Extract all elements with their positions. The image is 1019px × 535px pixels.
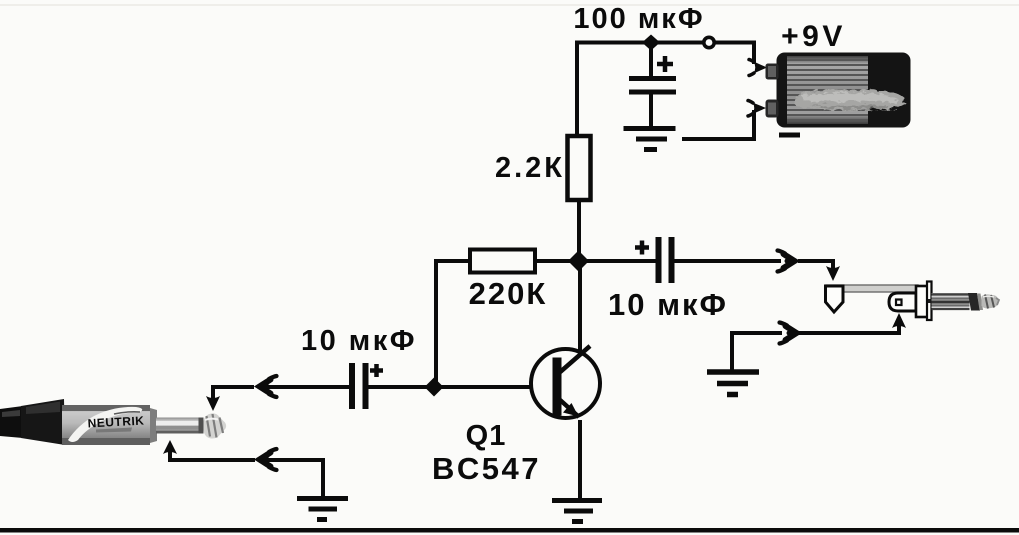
tip groove [199,418,204,434]
wire: output cap right lead [675,259,779,263]
boot [0,406,23,438]
input jack J1 photo (1/4 inch plug) [0,399,226,445]
sleeve lug hole [896,300,902,306]
arrow: output ground right arrow [780,323,798,344]
arrow: input sleeve (up) [163,440,177,454]
arrow: input signal left arrow [259,376,277,397]
Q1 emitter stroke [559,399,579,417]
wire: collector node to transistor collector [578,261,582,355]
wire: +9V rail left segment [577,41,702,45]
node B: collector node [568,251,589,272]
body strip [826,285,918,292]
top faint border line [0,4,1019,6]
bushing collar [916,286,928,317]
arrow: battery plus arrowhead [754,62,768,74]
shaft [156,418,201,434]
svg-text:+9V: +9V [781,20,846,53]
wire: +9V rail right of test point [716,43,754,63]
svg-text:220К: 220К [469,276,548,311]
wire: input ground wire [263,460,323,497]
bottom border line [0,528,1019,533]
ground: input jack [297,499,348,520]
arrow: into output tip (down) [826,266,840,281]
wire: filter cap to ground [649,93,653,127]
resistor R1 2.2K [568,136,591,200]
svg-text:Q1: Q1 [466,420,507,452]
svg-text:10 мкФ: 10 мкФ [301,325,417,357]
cone [21,399,65,445]
wire: base node to base [434,385,553,389]
plug shaft threaded [932,293,970,310]
wire: output ground to jack sleeve [797,328,899,333]
battery terminal - [766,100,779,118]
C3 plus sign [635,241,649,255]
swoosh [68,407,142,442]
node A: rail junction [642,35,660,51]
wire: input cap left lead [263,385,349,389]
svg-text:2.2К: 2.2К [495,152,565,184]
Q1 base bar [553,358,562,416]
arrow: output signal right arrow [778,251,796,272]
arrow: input ground left arrow [259,449,277,470]
wire: input cap to base node [368,385,434,389]
wire: input jack tip stub [213,387,252,398]
svg-text:10 мкФ: 10 мкФ [608,287,728,322]
battery BT1 9V photo [766,53,911,138]
C2 plus sign [370,364,383,377]
ground: output jack [707,372,759,395]
arrow: output sleeve (up) [892,313,906,328]
bushing flange [927,282,932,321]
svg-text:BC547: BC547 [432,451,541,486]
arrow: into input tip (down) [206,396,220,411]
ground: battery/filter cap [624,129,676,150]
svg-text:100 мкФ: 100 мкФ [573,3,704,35]
plug tip [982,294,999,308]
test point: open terminal circle [704,37,714,47]
battery label blob [792,87,904,109]
arrow: battery minus arrowhead [753,103,767,115]
svg-text:NEUTRIK: NEUTRIK [87,414,144,431]
battery terminal + [766,64,779,80]
wire: R2 220K right lead to node [535,259,572,263]
transistor Q1 circle [531,349,600,418]
node C: base node [425,378,444,397]
tip lug [826,286,844,312]
wire: R2 left lead down to base node [436,261,470,387]
C1 plus sign [657,56,673,72]
capacitor C3 output 10uF plates [659,237,672,283]
wire: filter cap branch from node to plate [649,43,653,78]
output jack J2 drawing (3.5mm plug) [826,282,1000,321]
wire: rail down to R1 2.2K [575,43,579,137]
wire: output ground riser [732,333,780,370]
wire: battery minus lead from ground [684,112,754,139]
Q1 emitter arrowhead [563,403,579,417]
wire: output wire to jack tip [800,261,833,266]
barrel [62,405,150,445]
ground: emitter [552,501,602,522]
sleeve lug [889,293,916,311]
capacitor C2 input 10uF plates [352,363,366,409]
Q1 collector stroke [559,346,590,373]
battery minus mark [779,133,800,138]
wire: emitter to ground [578,422,582,498]
insulator band [968,293,980,311]
wire: collector node to output cap [588,259,656,263]
wire: input sleeve stub [170,452,253,460]
resistor R2 220K [470,250,535,273]
capacitor C1 100uF plates [629,79,676,93]
neck [150,408,157,443]
wire: R1 to collector node [577,200,581,261]
tip [204,413,227,438]
